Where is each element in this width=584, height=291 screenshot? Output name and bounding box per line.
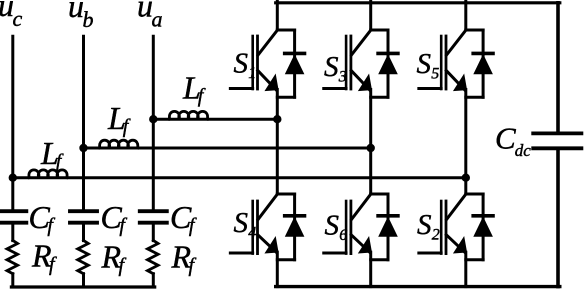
svg-text:S5: S5 xyxy=(417,48,440,83)
wire: bridge leg 2 middle segment xyxy=(369,90,372,195)
wire: phase c vertical line xyxy=(11,36,14,211)
diode D2 (anti-parallel of S2) xyxy=(473,194,493,260)
svg-text:Cdc: Cdc xyxy=(495,121,531,161)
wire: bridge leg 2 lower segment xyxy=(369,252,372,286)
svg-text:Cf: Cf xyxy=(29,199,56,237)
svg-text:uc: uc xyxy=(0,0,23,31)
resistor Rf phase b (zigzag) xyxy=(78,240,89,273)
inductor Lf phase c (coil) xyxy=(29,170,67,178)
IGBT S4 xyxy=(230,194,294,260)
diode D3 (anti-parallel of S3) xyxy=(378,30,398,97)
diode D6 (anti-parallel of S6) xyxy=(378,194,398,260)
wire: Rf phase a to filter neutral xyxy=(152,274,155,287)
wire: bridge leg 3 middle segment xyxy=(464,90,467,195)
node: phase a connection on bridge leg xyxy=(274,116,281,123)
svg-text:Lf: Lf xyxy=(107,100,131,138)
wire: Cf to Rf phase a xyxy=(152,223,155,241)
right DC bus wire (upper segment) xyxy=(556,3,560,132)
right DC bus wire (lower segment) xyxy=(556,150,560,287)
inductor Lf phase b (coil) xyxy=(100,140,138,148)
svg-text:Cf: Cf xyxy=(170,199,197,237)
wire: Cf to Rf phase b xyxy=(82,223,85,241)
capacitor Cf phase b (plates) xyxy=(70,211,97,223)
diode D4 (anti-parallel of S4) xyxy=(285,194,305,260)
wire: phase a to bridge leg xyxy=(153,118,277,121)
capacitor Cdc (plates) xyxy=(533,133,581,148)
svg-text:ub: ub xyxy=(68,0,94,32)
bottom DC rail (-) xyxy=(276,285,560,288)
svg-text:ua: ua xyxy=(137,0,163,31)
svg-text:Rf: Rf xyxy=(171,239,197,277)
wire: Cf to Rf phase c xyxy=(11,223,14,241)
wire: phase b to bridge leg xyxy=(84,147,371,150)
IGBT S3 xyxy=(324,30,388,97)
svg-text:S6: S6 xyxy=(325,209,348,244)
wire: bridge leg 3 upper segment xyxy=(464,1,467,30)
node: phase a filter tap xyxy=(150,116,157,123)
svg-text:Lf: Lf xyxy=(182,70,206,108)
node: phase b filter tap xyxy=(80,144,87,151)
svg-text:Lf: Lf xyxy=(40,135,64,173)
IGBT S5 xyxy=(419,30,483,97)
resistor Rf phase c (zigzag) xyxy=(7,240,18,273)
svg-text:S2: S2 xyxy=(417,209,440,244)
node: phase b connection on bridge leg xyxy=(367,144,374,151)
svg-text:Rf: Rf xyxy=(31,237,57,275)
capacitor Cf phase c (plates) xyxy=(0,211,26,223)
node: phase c filter tap xyxy=(9,174,16,181)
diode D1 (anti-parallel of S1) xyxy=(285,30,305,97)
resistor Rf phase a (zigzag) xyxy=(148,240,159,273)
wire: filter neutral (bottom) connecting three RC branches xyxy=(11,285,154,288)
wire: bridge leg 1 middle segment xyxy=(276,90,279,195)
wire: phase c to bridge leg xyxy=(13,176,466,179)
wire: Rf phase c to filter neutral xyxy=(11,274,14,287)
wire: phase a vertical line xyxy=(152,36,155,211)
capacitor Cf phase a (plates) xyxy=(140,211,167,223)
top DC rail (+) xyxy=(276,1,560,4)
wire: bridge leg 3 lower segment xyxy=(464,252,467,286)
svg-text:S3: S3 xyxy=(324,51,347,86)
diode D5 (anti-parallel of S5) xyxy=(473,30,493,97)
IGBT S6 xyxy=(324,194,388,260)
wire: bridge leg 1 upper segment xyxy=(276,1,279,30)
wire: bridge leg 2 upper segment xyxy=(369,1,372,30)
wire: Rf phase b to filter neutral xyxy=(82,274,85,287)
IGBT S2 xyxy=(419,194,483,260)
wire: bridge leg 1 lower segment xyxy=(276,252,279,286)
svg-text:Cf: Cf xyxy=(101,199,128,237)
wire: phase b vertical line xyxy=(82,36,85,211)
svg-text:Rf: Rf xyxy=(101,239,127,277)
inductor Lf phase a (coil) xyxy=(169,111,207,119)
IGBT S1 xyxy=(230,30,294,97)
node: phase c connection on bridge leg xyxy=(462,174,469,181)
